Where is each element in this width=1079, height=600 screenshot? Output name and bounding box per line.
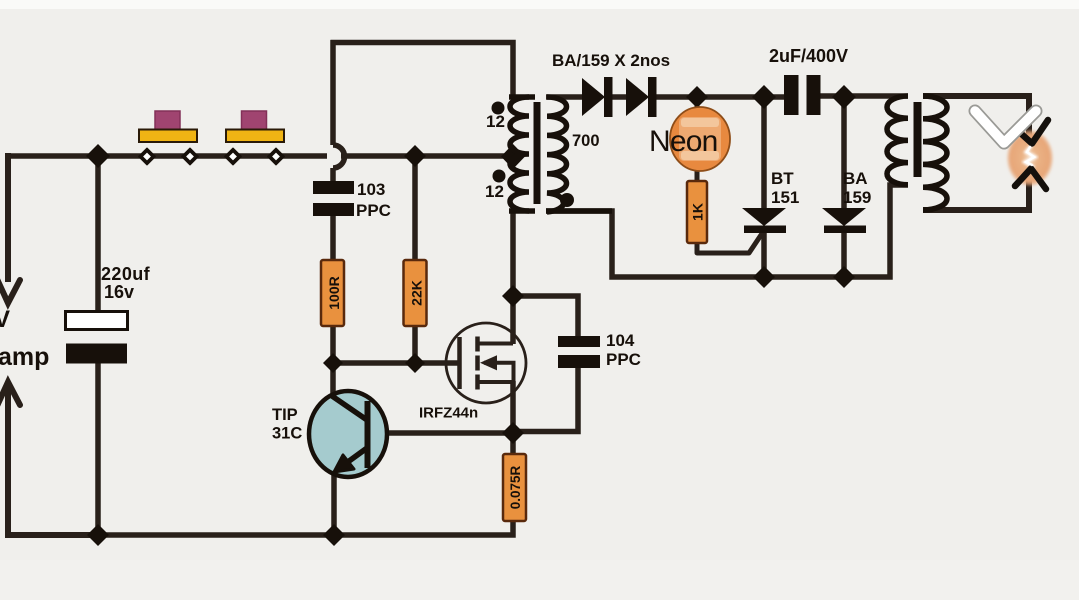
wire top rectangle horizontal and down to T1 primary top (331, 43, 514, 98)
white checkmark overlay (975, 111, 1036, 143)
SCR BT151 (742, 208, 786, 233)
wire battery positive vertical (left edge top) (5, 153, 11, 282)
svg-text:BA/159 X 2nos: BA/159 X 2nos (552, 51, 670, 70)
spark (white arc) (1025, 146, 1035, 167)
wire capacitor 104 branch top (513, 296, 578, 337)
switch S2 base (226, 130, 284, 143)
capacitor 104 plate 2 (558, 355, 600, 368)
wire gate node horizontal to MOSFET gate (333, 360, 458, 366)
wire resistor 0.075R top lead (510, 433, 516, 454)
svg-text:V: V (0, 306, 10, 333)
svg-text:BT: BT (771, 169, 794, 188)
T1 secondary bottom phase dot (560, 193, 574, 207)
wire 2uF capacitor to T2 primary top (819, 93, 908, 99)
capacitor 104 plate 1 (558, 336, 600, 347)
label 220uf 16v (101, 264, 151, 302)
spark core (white) (1026, 147, 1034, 165)
svg-text:31C: 31C (272, 425, 302, 443)
svg-text:IRFZ44n: IRFZ44n (419, 405, 478, 422)
svg-text:amp: amp (0, 343, 49, 371)
wire MOSFET drain lead (510, 296, 516, 344)
junction node MOSFET drain (502, 285, 524, 307)
transformer T1 primary winding (12-0-12) (509, 97, 535, 211)
wire MOSFET source lead down to source node (510, 381, 516, 433)
channel dashes (475, 337, 480, 390)
diode D1 BA159 (582, 77, 613, 117)
T1 primary top phase dot (492, 102, 505, 115)
switch S2 contact a (225, 149, 241, 165)
switch S1 contact b (182, 149, 198, 165)
wire neon branch from HV rail junction (695, 97, 700, 110)
emitter diagonal with arrow (345, 448, 367, 464)
wire TIP31C emitter lead to bottom rail (331, 470, 337, 535)
capacitor 2uF/400V plate 1 (784, 75, 799, 115)
svg-text:12: 12 (486, 112, 505, 131)
junction node battery minus at bottom rail (87, 524, 109, 546)
wire MOSFET drain node up to T1 primary bottom (510, 210, 516, 296)
wire T1 secondary top to diodes and HV rail (546, 94, 583, 100)
resistor 0.075R (503, 454, 526, 521)
wire battery branch vertical to 220uf capacitor (95, 156, 101, 311)
switch S1 base (139, 130, 197, 143)
svg-text:0.075R: 0.075R (508, 465, 523, 509)
wire 22K branch from supply rail junction (412, 156, 418, 262)
wire bottom ground rail (96, 521, 513, 535)
wire TIP31C collector lead (330, 363, 336, 397)
svg-text:103: 103 (357, 180, 385, 199)
T1 primary bottom phase dot (493, 170, 506, 183)
switch S1 contact a (139, 149, 155, 165)
spark gap electrode arrow top (1016, 120, 1048, 144)
battery positive arrow (down) (0, 279, 20, 303)
junction node T1 primary center tap (501, 144, 525, 169)
wire 220uf capacitor bottom to bottom rail (95, 363, 101, 535)
junction node at gate wire left (100R) (323, 353, 343, 373)
wire hop (no-connection jump over supply rail) (333, 145, 345, 168)
wire between diodes D1 and D2 (612, 94, 627, 100)
label TIP 31C (272, 406, 302, 443)
capacitor C103 plate 1 (313, 181, 354, 194)
resistor 100R (321, 260, 344, 326)
switch S2 button (242, 111, 267, 131)
svg-text:TIP: TIP (272, 406, 298, 424)
wire T2 secondary top to spark gap (923, 96, 1029, 136)
junction node at 22K branch (404, 145, 426, 167)
wire TIP31C base to MOSFET source node (369, 430, 513, 436)
junction node HV rail at neon (686, 86, 708, 108)
collector diagonal (332, 396, 367, 420)
diode D2 BA159 (626, 77, 657, 117)
svg-text:Neon: Neon (649, 125, 718, 158)
wire D2 cathode to 2uF capacitor (656, 94, 785, 100)
svg-text:12: 12 (485, 182, 504, 201)
capacitor 220uf negative plate (66, 344, 127, 364)
spark gap electrode arrow bottom (1015, 169, 1046, 190)
wire hop to capacitor 103 (330, 168, 336, 183)
wire vertical from top rectangle down to hop (330, 40, 336, 145)
svg-text:700: 700 (572, 132, 600, 150)
base bar (365, 401, 371, 468)
resistor 1K (687, 181, 707, 243)
MOSFET Q1 IRFZ44n (446, 323, 526, 403)
neon lamp (670, 107, 730, 171)
wire resistor 100R bottom to gate node (330, 325, 336, 363)
junction node HV rail at BA159 (832, 85, 856, 109)
transformer T2 primary winding (887, 96, 908, 185)
wire neon bottom to resistor 1K (695, 168, 700, 182)
wire T2 secondary bottom to spark gap (923, 178, 1029, 210)
svg-text:151: 151 (771, 188, 799, 207)
wire top supply rail through switches (5, 153, 327, 159)
wire resistor 22K bottom to gate node (412, 325, 418, 363)
junction node emitter at bottom rail (323, 524, 345, 546)
transformer T2 secondary winding (923, 96, 947, 210)
battery negative arrow (up) (0, 382, 20, 406)
drain arm (478, 342, 514, 346)
wire capacitor 103 to resistor 100R (330, 214, 336, 262)
capacitor 220uf positive plate (66, 312, 128, 330)
wire 1K bottom to SCR gate (697, 232, 763, 253)
diode BA159 (flyback) (822, 208, 866, 233)
transformer T1 secondary winding (700) (546, 97, 612, 212)
spark gap lamp glow (1007, 130, 1053, 186)
label BT 151 (771, 169, 799, 207)
svg-text:BA: BA (843, 169, 868, 188)
svg-text:1K: 1K (690, 203, 706, 221)
wire BA159 cathode to lower rail (841, 231, 847, 277)
svg-text:PPC: PPC (356, 201, 391, 220)
label BA 159 (843, 169, 871, 207)
transformer T1 core (534, 102, 541, 204)
svg-text:16v: 16v (104, 282, 134, 302)
svg-text:100R: 100R (326, 276, 342, 309)
switch S1 button (155, 111, 180, 131)
label 103 PPC (356, 180, 391, 220)
wire capacitor 104 branch bottom (513, 366, 578, 432)
resistor 22K (404, 260, 427, 326)
source arm (478, 380, 514, 384)
svg-text:220uf: 220uf (101, 264, 151, 284)
wire BT151 cathode to lower rail (761, 231, 767, 277)
capacitor C103 plate 2 (313, 203, 354, 216)
junction node at battery branch top (86, 144, 110, 168)
svg-text:22K: 22K (409, 280, 425, 306)
wire T1 secondary bottom return (546, 185, 908, 277)
wire BT151 anode branch (761, 97, 767, 210)
wire battery negative vertical (left edge bottom) (8, 387, 98, 535)
transformer T2 core (914, 102, 922, 177)
junction node lower rail at BA159 (833, 266, 855, 288)
wire supply rail right of hop to transformer center tap (341, 153, 510, 159)
svg-text:104: 104 (606, 331, 635, 350)
svg-text:2uF/400V: 2uF/400V (769, 46, 848, 66)
junction node at gate wire (22K) (405, 353, 425, 373)
body arm with arrow (484, 363, 514, 382)
svg-text:159: 159 (843, 188, 871, 207)
svg-text:PPC: PPC (606, 350, 641, 369)
junction node HV rail at BT151 (752, 85, 776, 109)
gate bar (457, 337, 462, 389)
capacitor 2uF/400V plate 2 (807, 75, 821, 115)
wire BA159 anode branch (841, 97, 847, 210)
transistor Q2 TIP31C (309, 391, 387, 477)
junction node lower rail at BT151 (753, 266, 775, 288)
switch S2 contact b (268, 149, 284, 165)
junction node MOSFET source (502, 422, 524, 444)
label 104 PPC (606, 331, 641, 369)
